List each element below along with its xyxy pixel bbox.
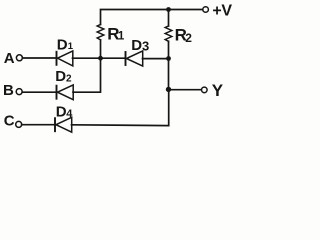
label D4 <box>56 104 74 121</box>
node Y junction <box>166 87 171 92</box>
svg-text:+V: +V <box>212 3 232 20</box>
wire R2 top lead <box>168 10 170 27</box>
diode D2 <box>57 85 74 100</box>
svg-text:4: 4 <box>66 108 73 120</box>
node top rail R2 junction <box>166 7 171 12</box>
terminal +V <box>203 7 209 13</box>
svg-text:3: 3 <box>142 39 149 54</box>
resistor R1 <box>97 25 104 40</box>
wire D2 up to node X1 <box>73 58 101 92</box>
svg-text:B: B <box>3 82 14 99</box>
label R1 <box>107 25 125 44</box>
svg-text:2: 2 <box>66 73 72 84</box>
label C <box>4 112 15 129</box>
diode D3 <box>126 51 143 66</box>
wire D1 to node X1 <box>73 57 101 59</box>
wire R2 bottom lead <box>168 41 170 58</box>
wire node X1 to D3 <box>101 57 126 59</box>
svg-text:1: 1 <box>68 41 74 52</box>
label +V <box>212 3 232 20</box>
wire top rail +V <box>101 10 203 25</box>
terminal B <box>16 89 22 95</box>
wire R2 node down to Y node <box>168 59 170 90</box>
node X1 junction <box>98 56 103 61</box>
svg-text:A: A <box>4 50 15 67</box>
wire D4 to Y column <box>72 90 169 126</box>
svg-text:D: D <box>55 68 66 85</box>
wire Y node to terminal <box>169 89 202 91</box>
diode D4 <box>55 117 72 132</box>
svg-text:D: D <box>56 104 67 121</box>
terminal Y <box>202 87 208 93</box>
label A <box>4 50 15 67</box>
label D2 <box>55 68 72 85</box>
label D3 <box>131 37 149 54</box>
resistor R2 <box>165 26 172 41</box>
svg-text:D: D <box>131 37 142 54</box>
wire C to D4 <box>22 124 55 126</box>
svg-text:1: 1 <box>118 31 125 43</box>
terminal A <box>16 55 22 61</box>
svg-text:D: D <box>57 36 68 53</box>
diode D1 <box>57 51 73 66</box>
label B <box>3 82 14 99</box>
terminal C <box>16 121 22 127</box>
label R2 <box>175 26 193 46</box>
svg-text:2: 2 <box>185 31 192 45</box>
wire D3 to node Y <box>143 58 169 60</box>
label Y <box>212 81 224 100</box>
svg-text:Y: Y <box>212 81 224 100</box>
wire B to D2 <box>22 91 56 93</box>
wire A to D1 <box>22 57 56 59</box>
svg-text:C: C <box>4 112 15 129</box>
wire R1 bottom lead <box>100 40 102 58</box>
node R2/D3 junction <box>166 56 171 61</box>
label D1 <box>57 36 74 53</box>
